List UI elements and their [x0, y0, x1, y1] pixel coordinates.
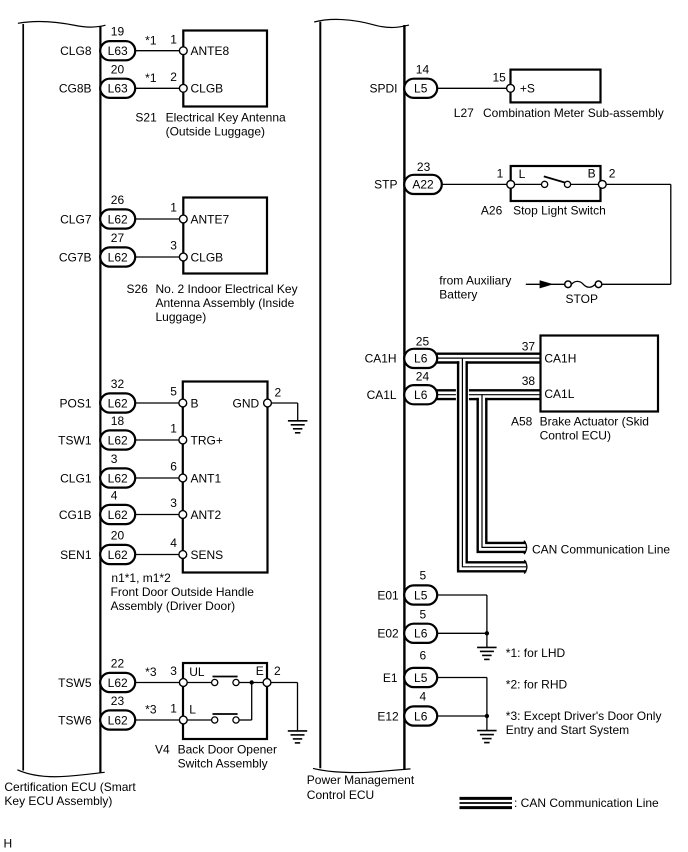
svg-text:20: 20 — [111, 529, 125, 543]
terminal GND pin 2 circle — [264, 399, 272, 407]
svg-text:32: 32 — [111, 377, 125, 391]
svg-text:E01: E01 — [377, 588, 399, 602]
signal CLG7: label, pin 26, connector L62, wire, pin 1 — [60, 193, 183, 229]
svg-text:1: 1 — [170, 702, 177, 716]
svg-text:3: 3 — [170, 664, 177, 678]
UL switch: terminal, contacts, blade — [179, 665, 263, 686]
signal E01: label, pin 5, connector L5, wire — [377, 569, 487, 634]
svg-text:L5: L5 — [414, 588, 428, 602]
svg-text:A26: A26 — [481, 204, 503, 218]
Certification ECU bus top break wave — [18, 22, 106, 28]
label A26 Stop Light Switch — [481, 204, 606, 218]
signal CG1B: label, pin 4, connector L62, wire, pin 3 — [59, 489, 184, 525]
svg-text:A58: A58 — [511, 414, 533, 428]
svg-text:Power Management: Power Management — [307, 773, 415, 787]
svg-text:2: 2 — [609, 167, 616, 181]
label Power Management Control ECU — [307, 773, 415, 802]
svg-text:GND: GND — [233, 396, 260, 410]
signal SEN1: label, pin 20, connector L62, wire, pin 4 — [60, 529, 183, 565]
svg-text:H: H — [4, 837, 13, 851]
svg-text:L6: L6 — [414, 352, 428, 366]
svg-text:CLGB: CLGB — [191, 250, 224, 264]
svg-text:L6: L6 — [414, 388, 428, 402]
svg-text:15: 15 — [492, 70, 506, 84]
svg-text:from Auxiliary: from Auxiliary — [439, 273, 511, 287]
component box S21 Electrical Key Antenna — [183, 31, 267, 107]
svg-text:1: 1 — [170, 201, 177, 215]
svg-text:5: 5 — [170, 385, 177, 399]
svg-text:*2: for RHD: *2: for RHD — [506, 678, 568, 692]
svg-text:B: B — [191, 396, 199, 410]
svg-text:L62: L62 — [108, 508, 128, 522]
svg-text:n1*1, m1*2: n1*1, m1*2 — [111, 571, 171, 585]
CAN branch V1 from CA1H down to lower stub — [458, 358, 526, 572]
component box A58 Brake Actuator (Skid Control ECU) — [541, 336, 659, 412]
label S21 Electrical Key Antenna (Outside Luggage) — [135, 111, 286, 139]
L switch: terminal, contacts, blade — [179, 683, 251, 724]
wire E terminal to ground — [267, 682, 298, 684]
svg-text:14: 14 — [416, 62, 430, 76]
svg-text:6: 6 — [170, 460, 177, 474]
svg-text:3: 3 — [111, 452, 118, 466]
arrowhead — [540, 280, 554, 288]
svg-text:CLGB: CLGB — [191, 82, 224, 96]
component box Front Door Outside Handle Assembly — [183, 382, 268, 573]
svg-text:4: 4 — [170, 536, 177, 550]
svg-text:B: B — [588, 167, 596, 181]
svg-text:Antenna Assembly (Inside: Antenna Assembly (Inside — [156, 296, 295, 310]
junction dot E02 — [485, 631, 489, 635]
signal CA1H: label, pin 25, connector L6, pin 37 — [365, 335, 536, 369]
label A58 Brake Actuator (Skid Control ECU) — [511, 414, 649, 442]
svg-text:L62: L62 — [108, 548, 128, 562]
terminal TRG+ pin 1 — [179, 433, 223, 447]
svg-text:TSW5: TSW5 — [58, 676, 92, 690]
signal STP: label, pin 23, connector A22, wire, pin 1 — [374, 160, 511, 194]
svg-text:*1: *1 — [145, 33, 157, 47]
svg-text:CAN Communication Line: CAN Communication Line — [532, 542, 670, 556]
svg-text:Electrical Key Antenna: Electrical Key Antenna — [166, 111, 286, 125]
legend CAN Communication Line symbol — [460, 798, 513, 807]
svg-text:Control ECU): Control ECU) — [540, 428, 611, 442]
svg-text:(Outside Luggage): (Outside Luggage) — [166, 125, 265, 139]
label Certification ECU — [4, 780, 136, 808]
Power Management Control ECU bus right line — [403, 25, 405, 769]
svg-text:2: 2 — [170, 70, 177, 84]
svg-text:CA1H: CA1H — [365, 352, 397, 366]
svg-text:Battery: Battery — [439, 287, 477, 301]
svg-text:23: 23 — [111, 694, 125, 708]
svg-text:2: 2 — [275, 386, 282, 400]
svg-text:E: E — [256, 664, 264, 678]
wire GND to ground — [268, 402, 298, 404]
svg-text:TSW6: TSW6 — [58, 713, 92, 727]
svg-text:Back Door Opener: Back Door Opener — [178, 743, 277, 757]
svg-text:CG1B: CG1B — [59, 508, 92, 522]
svg-text:25: 25 — [416, 335, 430, 349]
svg-text:No. 2 Indoor Electrical Key: No. 2 Indoor Electrical Key — [156, 282, 298, 296]
note *3 Except Drivers Door Only Entry and Start System — [506, 709, 662, 737]
label L27 Combination Meter Sub-assembly — [454, 106, 664, 120]
svg-text:Front Door Outside Handle: Front Door Outside Handle — [111, 585, 255, 599]
terminal SENS pin 4 — [179, 548, 223, 562]
svg-text:Entry and Start System: Entry and Start System — [506, 723, 629, 737]
svg-text:*3: *3 — [145, 703, 157, 717]
svg-text:CG8B: CG8B — [59, 82, 92, 96]
svg-text:: CAN Communication Line: : CAN Communication Line — [514, 796, 659, 810]
svg-text:L62: L62 — [108, 433, 128, 447]
svg-text:*1: *1 — [145, 71, 157, 85]
svg-text:1: 1 — [170, 422, 177, 436]
svg-text:L27: L27 — [454, 106, 474, 120]
svg-text:S21: S21 — [135, 111, 157, 125]
svg-text:E1: E1 — [383, 671, 398, 685]
label V4 Back Door Opener Switch Assembly — [155, 743, 277, 771]
svg-text:SEN1: SEN1 — [60, 548, 92, 562]
svg-text:Luggage): Luggage) — [156, 310, 207, 324]
svg-text:22: 22 — [111, 657, 125, 671]
svg-text:Combination Meter Sub-assembly: Combination Meter Sub-assembly — [483, 106, 664, 120]
svg-text:E12: E12 — [377, 709, 399, 723]
label Front Door Outside Handle Assembly (Driver Door) — [111, 585, 255, 613]
svg-text:23: 23 — [417, 160, 431, 174]
svg-text:4: 4 — [111, 489, 118, 503]
svg-text:L: L — [519, 167, 526, 181]
svg-text:2: 2 — [274, 664, 281, 678]
svg-text:L5: L5 — [414, 671, 428, 685]
label from Auxiliary Battery — [439, 273, 511, 301]
signal CLG8: label, pin 19, connector L63, wire, pin 1 — [60, 25, 183, 61]
Power Management bus top break wave — [314, 19, 409, 27]
junction dot E12 — [485, 714, 489, 718]
svg-text:6: 6 — [420, 649, 427, 663]
svg-text:ANTE7: ANTE7 — [191, 212, 230, 226]
svg-text:4: 4 — [420, 689, 427, 703]
svg-text:L63: L63 — [108, 44, 128, 58]
terminal CLGB pin 3 — [179, 250, 223, 264]
svg-text:L62: L62 — [108, 396, 128, 410]
svg-text:CA1L: CA1L — [367, 388, 397, 402]
svg-text:L62: L62 — [108, 676, 128, 690]
STOP fuse symbol — [565, 281, 602, 288]
svg-text:L62: L62 — [108, 250, 128, 264]
svg-text:27: 27 — [111, 231, 125, 245]
signal E12: label, pin 4, connector L6, wire to ground — [377, 689, 487, 730]
svg-text:3: 3 — [170, 496, 177, 510]
signal SPDI: label, pin 14, connector L5, wire, pin 15 — [369, 62, 510, 98]
terminal ANTE8 pin 1 — [179, 44, 229, 58]
CAN branch V2 from CA1L down to upper stub — [478, 394, 526, 552]
svg-text:STP: STP — [374, 178, 397, 192]
label S26 No. 2 Indoor Electrical Key Antenna Assembly (Inside Luggage) — [127, 282, 298, 324]
terminal CLGB pin 2 — [179, 82, 223, 96]
junction dot E node — [250, 680, 254, 684]
component box A26 Stop Light Switch — [511, 166, 601, 201]
svg-text:*1: for LHD: *1: for LHD — [506, 646, 566, 660]
svg-text:L5: L5 — [414, 82, 428, 96]
signal E1: label, pin 6, connector L5, wire — [383, 649, 487, 716]
ground E01/E02 — [477, 647, 497, 659]
svg-text:Stop Light Switch: Stop Light Switch — [513, 204, 606, 218]
component box S26 No. 2 Indoor Electrical Key Antenna — [183, 198, 267, 274]
svg-text:19: 19 — [111, 25, 125, 39]
svg-text:CLG1: CLG1 — [60, 471, 92, 485]
signal POS1: label, pin 32, connector L62, wire, pin 5 — [59, 377, 183, 413]
svg-text:ANT2: ANT2 — [191, 508, 222, 522]
svg-text:*3: Except Driver's Door Only: *3: Except Driver's Door Only — [506, 709, 662, 723]
svg-text:24: 24 — [416, 370, 430, 384]
svg-text:TRG+: TRG+ — [191, 433, 223, 447]
svg-text:Assembly (Driver Door): Assembly (Driver Door) — [111, 599, 236, 613]
signal CG7B: label, pin 27, connector L62, wire, pin 3 — [59, 231, 184, 267]
Certification ECU bus bottom break wave — [17, 770, 104, 777]
svg-text:UL: UL — [189, 665, 205, 679]
svg-text:STOP: STOP — [566, 292, 598, 306]
svg-text:26: 26 — [111, 193, 125, 207]
svg-text:Key ECU Assembly): Key ECU Assembly) — [4, 794, 112, 808]
svg-text:5: 5 — [420, 569, 427, 583]
ground V4 switch E — [288, 731, 307, 743]
svg-text:SPDI: SPDI — [369, 82, 397, 96]
svg-text:L: L — [189, 703, 196, 717]
ground front door handle GND — [288, 421, 308, 433]
svg-text:L62: L62 — [108, 471, 128, 485]
svg-text:+S: +S — [520, 82, 535, 96]
svg-text:ANT1: ANT1 — [191, 471, 222, 485]
svg-text:Control ECU: Control ECU — [307, 788, 374, 802]
Certification ECU bus right line — [99, 26, 101, 773]
svg-text:20: 20 — [111, 62, 125, 76]
signal E02: label, pin 5, connector L6, wire to ground — [377, 608, 487, 648]
svg-text:L6: L6 — [414, 627, 428, 641]
svg-text:CLG8: CLG8 — [60, 44, 92, 58]
svg-text:TSW1: TSW1 — [58, 433, 92, 447]
wire from B terminal to STOP fuse — [606, 183, 671, 185]
Certification ECU bus left line — [22, 24, 24, 771]
stop light switch contacts and blade — [515, 167, 599, 188]
terminal ANTE7 pin 1 — [179, 212, 229, 226]
svg-text:5: 5 — [420, 608, 427, 622]
terminal pin 1 circle — [507, 181, 515, 189]
signal TSW1: label, pin 18, connector L62, wire, pin 1 — [58, 414, 183, 450]
CAN wire CA1H bundle (to pin 37) — [437, 354, 541, 363]
terminal ANT1 pin 6 — [179, 471, 222, 485]
svg-text:A22: A22 — [412, 178, 434, 192]
terminal B pin 5 — [179, 396, 199, 410]
component box V4 Back Door Opener Switch Assembly — [183, 663, 267, 739]
signal TSW5: label, pin 22, connector L62, wire, pin 3 — [58, 657, 183, 693]
svg-text:L6: L6 — [414, 709, 428, 723]
terminal ANT2 pin 3 — [179, 508, 222, 522]
svg-text:CG7B: CG7B — [59, 250, 92, 264]
svg-text:1: 1 — [170, 32, 177, 46]
svg-text:E02: E02 — [377, 627, 399, 641]
svg-text:CLG7: CLG7 — [60, 212, 92, 226]
svg-text:POS1: POS1 — [59, 396, 91, 410]
Power Management Control ECU bus left line — [319, 22, 321, 768]
svg-text:V4: V4 — [155, 743, 170, 757]
svg-text:Certification ECU (Smart: Certification ECU (Smart — [4, 780, 136, 794]
signal CA1L: label, pin 24, connector L6, pin 38 — [367, 370, 536, 405]
svg-text:CA1L: CA1L — [544, 387, 574, 401]
svg-text:L63: L63 — [108, 82, 128, 96]
CAN stub end marks — [524, 541, 527, 555]
terminal pin 2 circle — [598, 167, 615, 189]
svg-text:38: 38 — [522, 374, 536, 388]
svg-text:L62: L62 — [108, 713, 128, 727]
svg-text:37: 37 — [522, 339, 536, 353]
CAN wire CA1L bundle (to pin 38) — [437, 390, 541, 399]
wire with arrow from auxiliary battery — [526, 283, 565, 285]
signal CLG1: label, pin 3, connector L62, wire, pin 6 — [60, 452, 183, 488]
svg-text:SENS: SENS — [191, 548, 224, 562]
ground E1/E12 — [477, 731, 497, 743]
svg-text:3: 3 — [170, 239, 177, 253]
signal CG8B: label, pin 20, connector L63, wire, pin 2 — [59, 62, 184, 98]
label GND and pin 2 — [233, 386, 282, 411]
terminal +S pin 15 — [507, 82, 535, 96]
terminal E pin 2 — [256, 664, 281, 678]
svg-text:CA1H: CA1H — [544, 352, 576, 366]
svg-text:ANTE8: ANTE8 — [191, 44, 230, 58]
svg-text:Switch Assembly: Switch Assembly — [178, 757, 268, 771]
svg-text:1: 1 — [497, 166, 504, 180]
Power Management bus bottom break wave — [313, 768, 411, 772]
svg-text:*3: *3 — [145, 665, 157, 679]
svg-text:Brake Actuator (Skid: Brake Actuator (Skid — [540, 414, 649, 428]
svg-text:18: 18 — [111, 414, 125, 428]
signal TSW6: label, pin 23, connector L62, wire, pin 1 — [58, 694, 183, 730]
svg-text:L62: L62 — [108, 212, 128, 226]
component box L27 Combination Meter Sub-assembly — [511, 70, 601, 103]
svg-text:S26: S26 — [127, 282, 149, 296]
